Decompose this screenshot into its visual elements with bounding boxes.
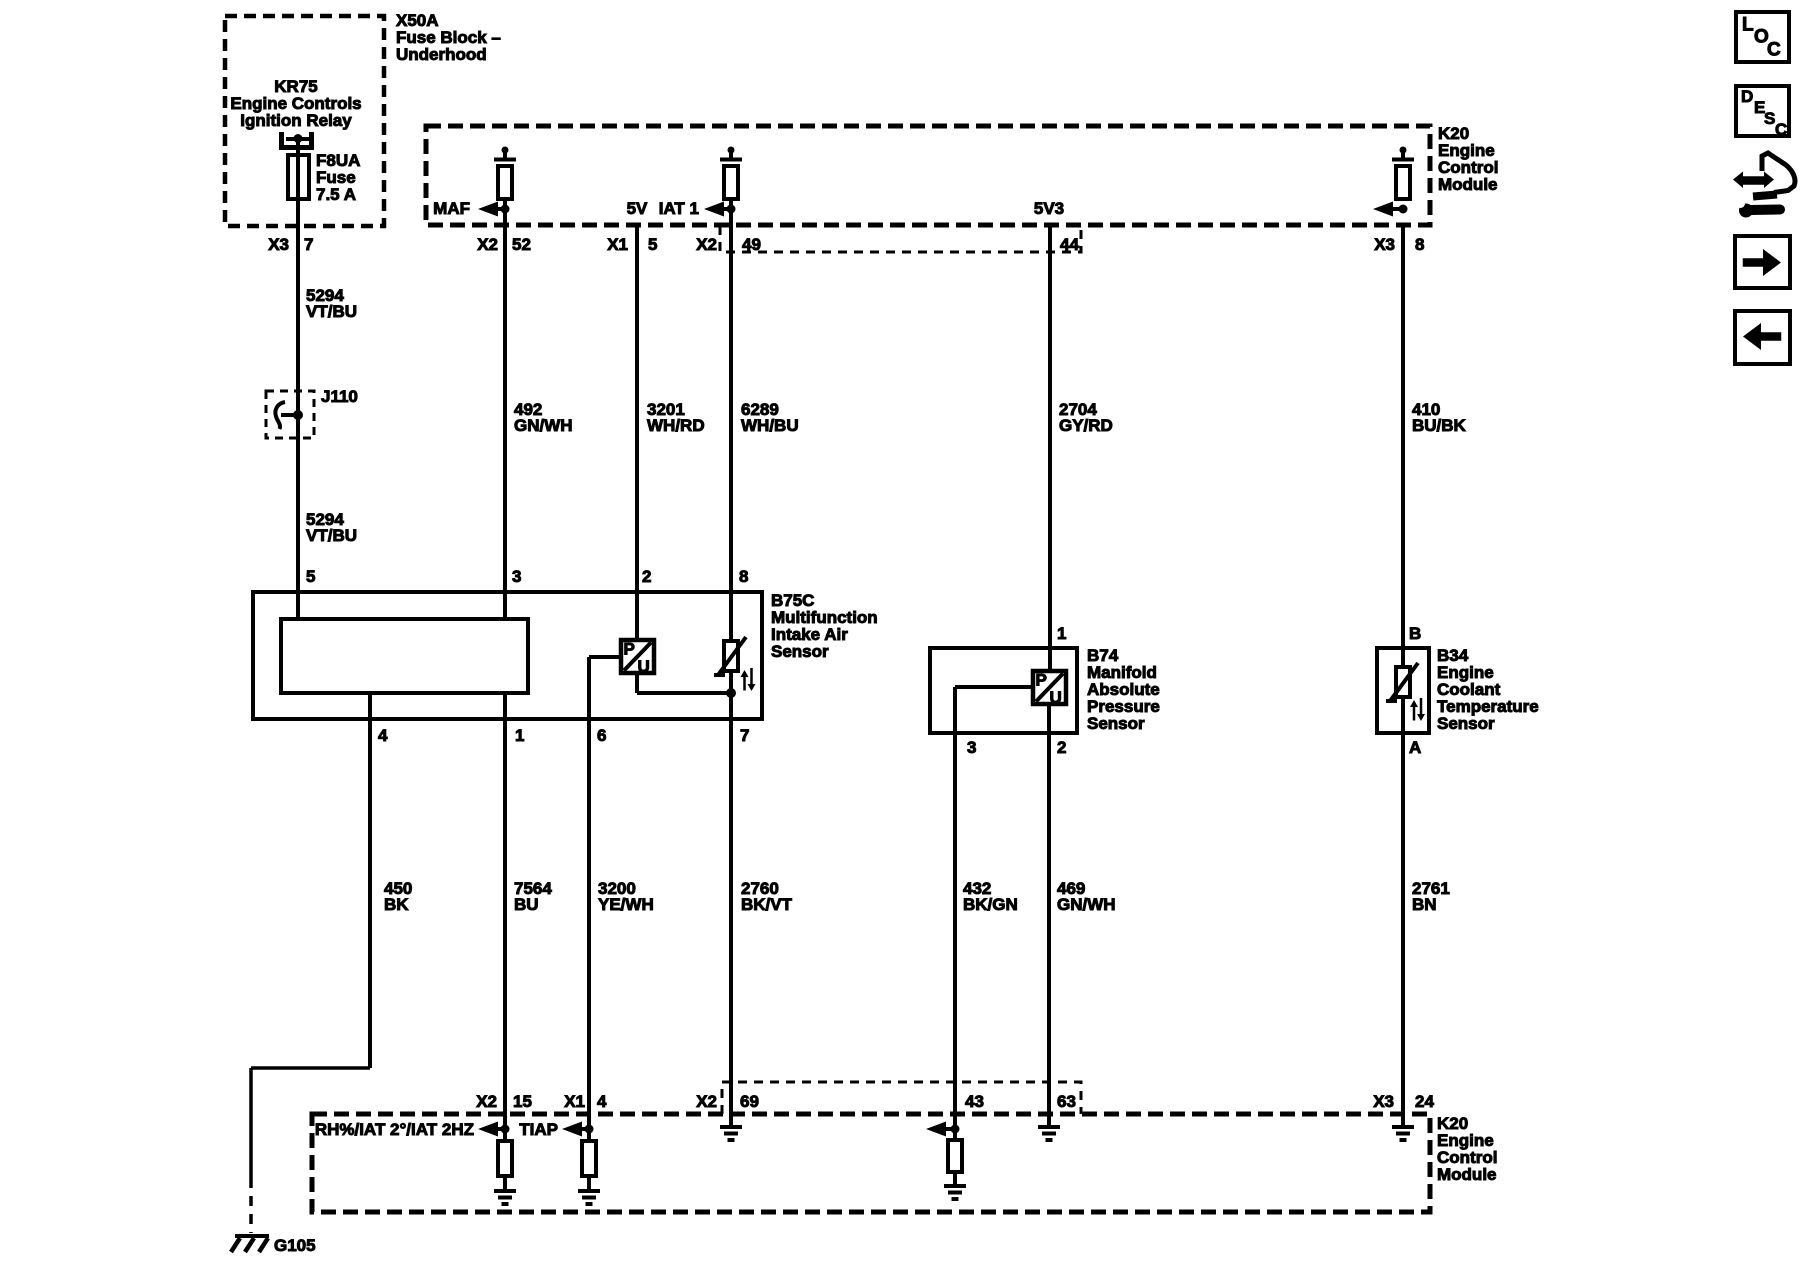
svg-text:Ignition Relay: Ignition Relay (240, 111, 352, 130)
svg-text:U: U (638, 657, 650, 676)
svg-text:24: 24 (1415, 1092, 1434, 1111)
svg-text:S: S (1764, 109, 1775, 128)
svg-text:U: U (1050, 688, 1062, 707)
svg-text:RH%/IAT 2°/IAT 2HZ: RH%/IAT 2°/IAT 2HZ (315, 1120, 474, 1139)
svg-text:3: 3 (512, 567, 521, 586)
svg-text:Sensor: Sensor (1087, 714, 1145, 733)
svg-text:VT/BU: VT/BU (306, 302, 357, 321)
svg-text:J110: J110 (321, 387, 358, 406)
svg-text:P: P (1036, 671, 1047, 690)
svg-text:52: 52 (512, 235, 531, 254)
svg-text:8: 8 (1415, 235, 1424, 254)
svg-text:5: 5 (306, 567, 315, 586)
svg-text:3: 3 (967, 738, 976, 757)
svg-text:BN: BN (1412, 895, 1437, 914)
svg-text:69: 69 (740, 1092, 759, 1111)
svg-text:GN/WH: GN/WH (514, 416, 573, 435)
svg-text:MAF: MAF (433, 199, 470, 218)
svg-text:4: 4 (597, 1092, 607, 1111)
svg-text:WH/RD: WH/RD (647, 416, 705, 435)
svg-text:YE/WH: YE/WH (598, 895, 654, 914)
svg-text:43: 43 (965, 1092, 984, 1111)
svg-text:1: 1 (515, 726, 524, 745)
svg-text:X2: X2 (696, 235, 717, 254)
svg-text:7.5 A: 7.5 A (316, 185, 356, 204)
svg-text:2: 2 (642, 567, 651, 586)
svg-text:2: 2 (1057, 738, 1066, 757)
svg-text:44: 44 (1060, 235, 1079, 254)
svg-text:5: 5 (648, 235, 657, 254)
svg-text:IAT 1: IAT 1 (659, 199, 699, 218)
svg-text:BU/BK: BU/BK (1412, 416, 1467, 435)
svg-text:X1: X1 (607, 235, 628, 254)
svg-text:BU: BU (514, 895, 539, 914)
svg-text:8: 8 (739, 567, 748, 586)
svg-text:C: C (1767, 40, 1781, 61)
svg-text:X2: X2 (476, 1092, 497, 1111)
svg-text:Module: Module (1437, 1165, 1497, 1184)
svg-text:X3: X3 (1373, 1092, 1394, 1111)
svg-text:63: 63 (1057, 1092, 1076, 1111)
svg-text:C: C (1775, 120, 1787, 139)
svg-text:Underhood: Underhood (396, 45, 487, 64)
svg-text:X3: X3 (268, 235, 289, 254)
svg-text:49: 49 (742, 235, 761, 254)
svg-text:A: A (1409, 738, 1421, 757)
svg-text:6: 6 (597, 726, 606, 745)
svg-text:5V3: 5V3 (1034, 199, 1064, 218)
svg-text:Module: Module (1438, 175, 1498, 194)
svg-text:BK: BK (384, 895, 409, 914)
svg-text:7: 7 (740, 726, 749, 745)
svg-text:TIAP: TIAP (519, 1120, 558, 1139)
svg-text:WH/BU: WH/BU (741, 416, 799, 435)
svg-text:P: P (624, 640, 635, 659)
svg-text:GY/RD: GY/RD (1059, 416, 1113, 435)
svg-text:X2: X2 (477, 235, 498, 254)
svg-text:GN/WH: GN/WH (1057, 895, 1116, 914)
svg-text:5V: 5V (627, 199, 648, 218)
svg-text:X3: X3 (1374, 235, 1395, 254)
svg-text:X1: X1 (564, 1092, 585, 1111)
svg-text:Sensor: Sensor (1437, 714, 1495, 733)
svg-text:Sensor: Sensor (771, 642, 829, 661)
svg-text:4: 4 (378, 726, 388, 745)
svg-text:BK/GN: BK/GN (963, 895, 1018, 914)
svg-text:G105: G105 (274, 1236, 316, 1255)
svg-text:B: B (1409, 624, 1421, 643)
svg-text:7: 7 (304, 235, 313, 254)
svg-text:VT/BU: VT/BU (306, 526, 357, 545)
svg-text:D: D (1741, 87, 1753, 106)
svg-text:X2: X2 (696, 1092, 717, 1111)
svg-text:L: L (1742, 15, 1754, 36)
svg-text:15: 15 (513, 1092, 532, 1111)
svg-text:1: 1 (1057, 624, 1066, 643)
svg-text:BK/VT: BK/VT (741, 895, 793, 914)
